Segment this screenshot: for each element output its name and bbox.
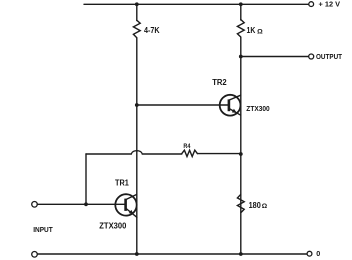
wire input xyxy=(37,203,125,205)
wire output xyxy=(241,56,309,58)
resistor R4 xyxy=(182,150,198,156)
svg-text:TR2: TR2 xyxy=(212,78,227,87)
svg-text:TR1: TR1 xyxy=(115,178,129,187)
svg-text:INPUT: INPUT xyxy=(33,225,53,234)
svg-text:OUTPUT: OUTPUT xyxy=(316,52,342,61)
svg-text:Ω: Ω xyxy=(262,204,268,210)
junction feedback / TR2 emitter node xyxy=(239,152,243,156)
wire left feedback branch vertical xyxy=(85,154,87,204)
svg-text:0: 0 xyxy=(316,249,320,258)
svg-text:ZTX300: ZTX300 xyxy=(99,221,127,230)
junction top rail / right branch xyxy=(239,2,243,6)
junction output tap xyxy=(239,55,243,59)
terminal 0 xyxy=(307,251,312,256)
transistor TR1 xyxy=(115,194,137,217)
junction top rail / left branch xyxy=(135,2,139,6)
svg-text:Ω: Ω xyxy=(257,29,263,35)
resistor 1K xyxy=(237,20,244,38)
terminal bottom left xyxy=(32,252,38,258)
svg-text:1K: 1K xyxy=(247,26,256,35)
junction input / feedback xyxy=(84,202,88,206)
resistor 180 ohm xyxy=(237,194,244,212)
wire left vertical upper (rail to 4.7K) xyxy=(136,4,138,20)
terminal OUTPUT xyxy=(309,54,314,59)
wire right vertical upper (rail to 1K) xyxy=(240,4,242,20)
transistor TR2 xyxy=(220,95,241,116)
wire right vertical (1K to bottom rail, passes TR2) xyxy=(240,38,242,255)
wire TR2 base xyxy=(137,104,229,106)
junction bottom rail / 180 ohm xyxy=(239,252,243,256)
svg-text:180: 180 xyxy=(249,201,262,210)
junction TR2 base tap xyxy=(135,103,139,107)
resistor 4.7K xyxy=(133,20,140,37)
wire feedback right segment xyxy=(197,153,240,155)
svg-text:4-7K: 4-7K xyxy=(144,26,160,35)
svg-text:+ 12 V: + 12 V xyxy=(319,0,341,9)
terminal +12V xyxy=(309,2,314,7)
wire top +12V rail xyxy=(84,3,309,5)
wire feedback left segment with hop over left vertical xyxy=(86,151,182,154)
junction bottom rail / TR1 emitter xyxy=(135,252,139,256)
terminal INPUT xyxy=(32,202,38,208)
svg-text:ZTX300: ZTX300 xyxy=(246,104,269,113)
wire left vertical (4.7K to bottom rail, passes TR1) xyxy=(136,38,138,254)
wire bottom rail xyxy=(37,253,307,255)
